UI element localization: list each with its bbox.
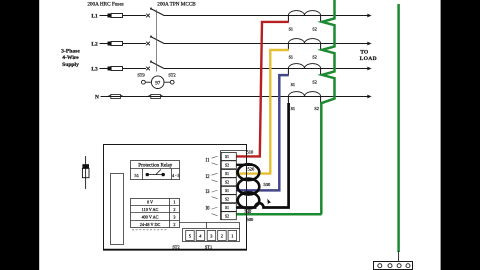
svg-text:0 V: 0 V — [147, 200, 153, 205]
svg-text:510: 510 — [247, 150, 255, 155]
wire table to terminal strip — [180, 223, 207, 229]
wire black coil lead — [236, 164, 253, 166]
svg-text:530: 530 — [264, 182, 272, 187]
right letterbox bar — [441, 0, 480, 270]
mouse cursor — [267, 199, 271, 205]
aux voltage table — [131, 199, 180, 228]
svg-text:I3: I3 — [206, 190, 211, 195]
CT2 S1 lead — [287, 44, 289, 51]
svg-text:1: 1 — [173, 200, 175, 205]
wire L3 to breaker — [123, 68, 147, 70]
svg-text:L3: L3 — [91, 67, 98, 73]
svg-text:I2: I2 — [206, 175, 211, 180]
neutral link 2 — [151, 95, 161, 99]
svg-text:L2: L2 — [91, 42, 98, 48]
CT3 S2 lead — [320, 69, 322, 76]
fuse vertical standalone — [85, 156, 87, 189]
svg-text:110 V AC: 110 V AC — [142, 207, 159, 212]
breaker pole 3 contact — [146, 67, 150, 71]
svg-text:400 V AC: 400 V AC — [142, 215, 159, 220]
wire yellow 520 from CT2 — [236, 50, 289, 174]
svg-text:2: 2 — [173, 222, 175, 227]
svg-text:L1: L1 — [91, 14, 98, 20]
wire earth to terminal box — [398, 251, 400, 262]
svg-text:S1: S1 — [225, 206, 229, 210]
CT4 S2 lead — [320, 97, 322, 104]
wire L2 to CT — [164, 43, 368, 45]
svg-text:S2: S2 — [225, 197, 229, 201]
CT3 S1 lead — [287, 69, 289, 76]
wire L3 to CT — [164, 68, 368, 70]
breaker pole 1 contact — [146, 14, 150, 18]
svg-text:3: 3 — [173, 215, 175, 220]
svg-text:S2: S2 — [225, 180, 229, 184]
svg-text:S2: S2 — [314, 106, 318, 111]
protection relay title box — [131, 161, 180, 180]
wire L2 to breaker — [123, 43, 147, 45]
breaker linkage — [156, 10, 158, 72]
arrow L2 to load — [367, 42, 371, 46]
svg-text:ST2: ST2 — [172, 244, 179, 249]
arrow L3 to load — [367, 67, 371, 71]
CT1 windings — [288, 11, 320, 16]
svg-text:2: 2 — [173, 207, 175, 212]
CT2 S2 lead — [320, 44, 322, 51]
terminal square labels — [225, 155, 229, 218]
wire red 510 from CT1 — [236, 22, 289, 157]
svg-text:4-Wire: 4-Wire — [62, 55, 79, 61]
wire L1 lead — [100, 15, 108, 17]
svg-text:S2: S2 — [312, 79, 316, 84]
earth terminal box — [374, 262, 413, 270]
CT4 S1 lead — [287, 97, 289, 104]
svg-text:S1: S1 — [289, 26, 293, 31]
wire green earth — [397, 4, 400, 252]
neutral link 1 — [111, 95, 121, 99]
wire L1 to breaker — [123, 15, 147, 17]
svg-text:S2: S2 — [225, 214, 229, 218]
svg-text:200A TPN MCCB: 200A TPN MCCB — [157, 1, 196, 7]
label TO LOAD — [360, 50, 377, 62]
svg-text:97: 97 — [155, 81, 161, 86]
svg-text:S2: S2 — [312, 26, 316, 31]
svg-text:ST2: ST2 — [168, 73, 175, 78]
trip coil left terminal — [142, 80, 146, 84]
relay outer box — [104, 145, 247, 250]
svg-text:Supply: Supply — [62, 62, 79, 68]
wire L1 to CT — [164, 15, 368, 17]
wire L2 lead — [100, 43, 108, 45]
svg-text:ST1: ST1 — [205, 244, 212, 249]
svg-text:4 - 5: 4 - 5 — [172, 173, 179, 178]
relay inner tall rectangle — [111, 174, 124, 245]
arrow N to load — [367, 95, 371, 99]
CT3 windings — [288, 64, 320, 69]
breaker pole 1 blade — [150, 8, 151, 9]
svg-text:24-48 V DC: 24-48 V DC — [140, 222, 161, 227]
svg-text:S1: S1 — [291, 82, 295, 87]
svg-text:S1: S1 — [225, 155, 229, 159]
wire blue 530 from CT3 — [236, 75, 289, 190]
left letterbox bar — [0, 0, 39, 270]
svg-text:S2: S2 — [225, 163, 229, 167]
svg-text:S1: S1 — [289, 54, 293, 59]
svg-text:I0: I0 — [206, 207, 211, 212]
terminal strip ST1 — [183, 229, 240, 242]
svg-text:520: 520 — [248, 166, 256, 171]
svg-text:2: 2 — [221, 233, 223, 238]
wire to trip coil — [145, 81, 151, 83]
CT1 S2 lead — [320, 16, 322, 23]
CT1 S1 lead — [287, 16, 289, 23]
svg-text:S1: S1 — [225, 189, 229, 193]
svg-text:3-Phase: 3-Phase — [61, 49, 80, 55]
svg-text:S2: S2 — [312, 54, 316, 59]
breaker pole 3 blade — [150, 61, 151, 62]
wire from trip coil — [164, 81, 170, 83]
terminal ticks — [212, 156, 218, 216]
relay coil loop 1 — [238, 164, 260, 180]
svg-text:N: N — [95, 95, 99, 101]
breaker pole 2 contact — [146, 42, 150, 46]
relay coil loop 2 — [238, 179, 260, 195]
fuse F1 — [108, 14, 112, 18]
wire L3 lead — [100, 68, 108, 70]
svg-text:1: 1 — [231, 233, 233, 238]
svg-text:200A HRC Fuses: 200A HRC Fuses — [87, 1, 123, 7]
svg-text:ST9: ST9 — [137, 73, 145, 78]
wire N lead — [101, 96, 368, 98]
CT4 windings — [288, 92, 320, 97]
wire black 540 from CT4 — [236, 103, 289, 208]
wire green common — [236, 0, 335, 214]
svg-text:Protection Relay: Protection Relay — [138, 163, 173, 169]
relay contact symbol — [146, 173, 149, 176]
relay CT terminal column — [220, 151, 222, 221]
trip coil right terminal — [170, 80, 174, 84]
input labels I1 I2 I3 I0 — [206, 159, 211, 212]
dashed line under table — [132, 229, 167, 231]
svg-text:S1: S1 — [225, 172, 229, 176]
label 3-Phase 4-Wire Supply — [61, 49, 80, 69]
svg-text:LOAD: LOAD — [360, 56, 377, 62]
CT2 windings — [288, 39, 320, 44]
fuse F2 — [108, 42, 112, 46]
svg-text:TO: TO — [360, 50, 369, 56]
svg-text:540: 540 — [245, 209, 253, 214]
fuse F3 — [108, 67, 112, 71]
svg-text:51: 51 — [135, 173, 139, 178]
relay coil loop 3 — [238, 192, 260, 208]
breaker pole 2 blade — [150, 36, 151, 37]
svg-text:S1: S1 — [291, 106, 295, 111]
svg-text:500: 500 — [247, 217, 255, 222]
arrow L1 to load — [367, 14, 371, 18]
trip coil 97 — [151, 76, 164, 89]
svg-text:I1: I1 — [206, 159, 211, 164]
